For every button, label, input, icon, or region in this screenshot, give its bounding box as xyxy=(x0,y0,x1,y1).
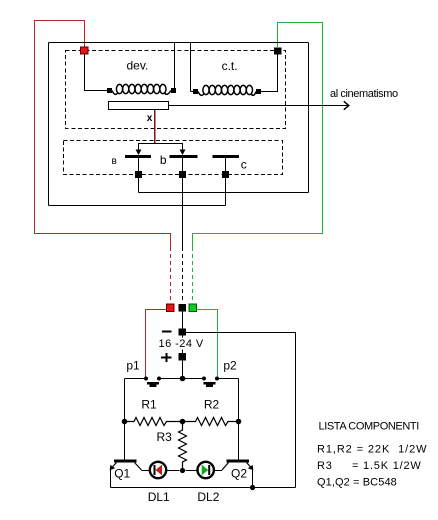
led DL1 xyxy=(142,462,180,478)
wire green dashed drop to battery xyxy=(192,247,194,303)
supply rail xyxy=(125,378,239,380)
coil dev loop wires xyxy=(85,43,175,91)
svg-text:p1: p1 xyxy=(126,359,140,373)
arrowhead onto bar v xyxy=(136,150,142,156)
arrowhead onto bar b xyxy=(180,150,186,156)
svg-text:c: c xyxy=(241,158,247,172)
inductor dev coil xyxy=(112,84,171,94)
linkage dark red rod xyxy=(154,110,156,144)
wire red top-left loop xyxy=(35,21,171,248)
node right R junction xyxy=(236,419,242,425)
svg-text:в: в xyxy=(112,156,117,167)
svg-text:c.t.: c.t. xyxy=(222,59,238,73)
wire bottom xyxy=(49,205,226,207)
svg-text:DL1: DL1 xyxy=(148,490,170,504)
contact p2 xyxy=(202,377,206,381)
svg-text:Q2: Q2 xyxy=(231,467,247,481)
battery minus xyxy=(162,331,172,333)
wire right xyxy=(308,43,310,193)
node junction battery-rail xyxy=(180,376,186,382)
battery terminal top xyxy=(179,329,187,336)
arrow al cinematismo xyxy=(169,101,349,109)
stub below bar v xyxy=(138,158,140,172)
contact p1 xyxy=(144,377,148,381)
wire green stub to p2 xyxy=(197,310,218,379)
svg-text:DL2: DL2 xyxy=(197,490,219,504)
svg-text:16 -24 V: 16 -24 V xyxy=(159,338,204,350)
svg-text:R2: R2 xyxy=(204,398,220,412)
node black square (ct top-right) xyxy=(274,48,282,55)
wire red stub to p1 xyxy=(146,310,167,379)
node green battery square xyxy=(189,304,197,312)
wire top xyxy=(49,42,309,44)
wire center drop solid xyxy=(182,178,184,248)
label 16-24V xyxy=(157,338,206,350)
node Q2 emitter junction xyxy=(250,485,255,490)
svg-text:R3: R3 xyxy=(157,430,173,444)
svg-text:x: x xyxy=(147,113,153,124)
parts list xyxy=(317,421,427,489)
wire center drop dashed xyxy=(182,247,184,303)
wire red dashed drop to battery xyxy=(170,247,172,303)
battery terminal bottom xyxy=(179,353,187,361)
svg-text:Q1: Q1 xyxy=(114,467,130,481)
svg-text:R1,R2 = 22K 1/2W: R1,R2 = 22K 1/2W xyxy=(317,444,427,456)
terminal square dev right xyxy=(171,88,176,93)
inductor ct coil xyxy=(198,85,256,95)
contact bar v xyxy=(125,155,151,158)
wire square3 down to box bottom xyxy=(225,178,227,206)
resistor R3 xyxy=(179,422,187,471)
terminal square ct right xyxy=(256,89,261,94)
wire right branch xyxy=(238,379,240,461)
stub below bar c xyxy=(225,158,227,172)
stub below bar b xyxy=(182,158,184,172)
resistor R1 xyxy=(125,418,183,426)
svg-text:b: b xyxy=(160,153,167,167)
contact bar c xyxy=(213,155,240,158)
svg-text:LISTA COMPONENTI: LISTA COMPONENTI xyxy=(319,421,420,433)
node left R junction xyxy=(122,419,128,425)
battery xyxy=(182,312,184,379)
wire square1 down to line1 xyxy=(138,178,140,193)
wire left branch xyxy=(124,379,126,461)
transistor Q1 xyxy=(110,460,142,488)
resistor R2 xyxy=(183,418,239,426)
battery plus xyxy=(161,353,172,362)
wire line1 to contact square1 xyxy=(139,192,309,194)
svg-text:dev.: dev. xyxy=(127,59,149,73)
node center R junction xyxy=(180,419,186,425)
dashed frame inner (contacts) xyxy=(64,141,283,175)
svg-text:Q1,Q2 = BC548: Q1,Q2 = BC548 xyxy=(317,477,397,489)
node red square (dev top-left) xyxy=(81,47,89,54)
node square3 xyxy=(222,171,229,178)
svg-text:R1: R1 xyxy=(141,398,157,412)
contact bar b xyxy=(170,155,198,158)
wire green top-right loop xyxy=(193,23,323,248)
node DL junction xyxy=(180,468,185,473)
node red battery square xyxy=(167,304,175,312)
battery wire to right rail xyxy=(186,333,296,488)
terminal square dev left xyxy=(107,88,112,93)
terminal square ct left xyxy=(193,89,198,94)
armature bar with x xyxy=(109,102,169,110)
transistor Q2 xyxy=(222,460,253,488)
wire left xyxy=(48,43,50,206)
outer solid box wires xyxy=(49,43,309,206)
led DL2 xyxy=(186,462,223,478)
dashed frame outer xyxy=(66,51,286,129)
node square1 xyxy=(135,171,142,178)
node square2 xyxy=(179,171,186,178)
svg-text:p2: p2 xyxy=(223,359,237,373)
coil ct loop wires xyxy=(191,43,278,92)
linkage wire with arrows xyxy=(139,144,183,152)
svg-text:al cinematismo: al cinematismo xyxy=(330,88,398,100)
node black battery square xyxy=(179,304,187,312)
wire bottom rail xyxy=(111,487,296,489)
svg-text:R3 = 1.5K 1/2W: R3 = 1.5K 1/2W xyxy=(317,460,422,472)
